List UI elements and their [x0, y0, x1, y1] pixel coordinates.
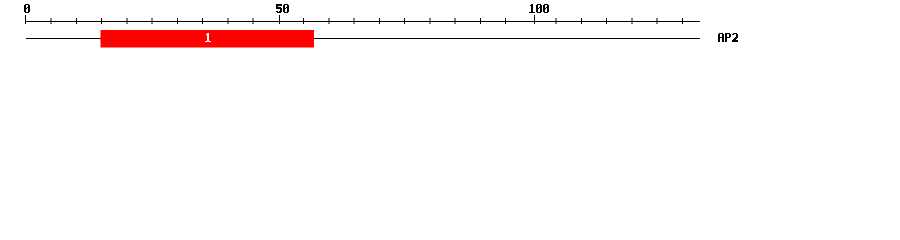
track label AP2	[718, 33, 738, 42]
label 0	[24, 4, 30, 13]
domain box 1 (red)	[101, 30, 315, 47]
major tick 0	[25, 15, 26, 24]
label 50	[276, 4, 289, 13]
feature track line	[26, 38, 700, 39]
minor ticks	[51, 18, 683, 24]
ruler baseline	[25, 21, 700, 22]
major tick 50	[279, 15, 280, 24]
major tick 100	[534, 15, 535, 24]
domain box label 1	[205, 33, 211, 42]
label 100	[529, 4, 549, 13]
